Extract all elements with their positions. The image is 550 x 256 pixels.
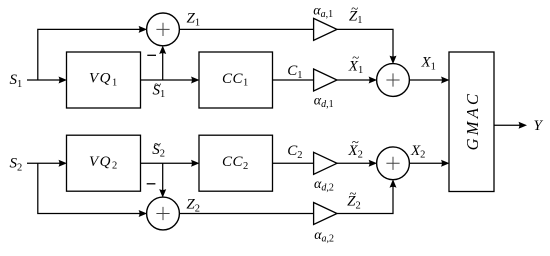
arrowhead into VQ2 (59, 160, 68, 167)
block CC1 (199, 52, 273, 108)
block VQ1 (67, 52, 141, 108)
wire Z1-tilde amp alpha_a1 down to adder A2 top (337, 29, 393, 61)
wire S2-tilde junction down into adder A4 (162, 163, 164, 194)
block GMAC (449, 52, 494, 192)
label Z1-tilde (349, 0, 363, 26)
arrowhead into adder A3 bottom (390, 179, 397, 188)
wire S1-tilde junction up into adder A1 (162, 49, 164, 81)
wire C2 from CC2 to amp alpha_d2 (273, 162, 314, 164)
arrowhead into adder A2 left (369, 77, 378, 84)
adder A2 (X1 summer) (377, 64, 410, 97)
svg-text:~: ~ (352, 134, 359, 149)
arrowhead into adder A3 left (369, 160, 378, 167)
minus sign at adder A1 (147, 54, 156, 56)
wire Y output from GMAC (494, 124, 524, 126)
svg-text:~: ~ (349, 186, 356, 201)
svg-text:GMAC: GMAC (463, 91, 482, 151)
label S2-tilde (152, 136, 165, 160)
arrowhead into CC2 (191, 160, 200, 167)
adder A3 (X2 summer) (377, 147, 410, 180)
arrowhead into adder A2 top (390, 56, 397, 65)
arrowhead into adder A1 bottom (159, 46, 166, 55)
wire X2 adder A3 to GMAC (409, 162, 446, 164)
arrowhead into GMAC X2 (441, 160, 450, 167)
amp triangle alpha_d1 (314, 69, 337, 91)
wire X1-tilde amp alpha_d1 to adder A2 (337, 79, 374, 81)
label X2-tilde (347, 134, 362, 161)
amp triangle alpha_a1 (314, 18, 337, 40)
block VQ2 (67, 135, 141, 191)
wire S1 branch up to adder A1 (38, 29, 144, 80)
adder A4 (Z2 summer) (147, 197, 180, 230)
label S1-tilde (153, 77, 166, 101)
arrowhead into CC1 (191, 77, 200, 84)
arrowhead Y output (519, 122, 528, 129)
wire C1 from CC1 to amp alpha_d1 (273, 79, 314, 81)
wire Z2-tilde amp alpha_a2 up to adder A3 bottom (337, 183, 393, 214)
arrowhead into adder A1 left (139, 26, 148, 33)
wire Z1 adder A1 to amp alpha_a1 (179, 28, 313, 30)
svg-text:~: ~ (352, 50, 359, 65)
wire S2 branch down to adder A4 (38, 163, 144, 213)
wire X2-tilde amp alpha_d2 to adder A3 (337, 162, 374, 164)
svg-text:~: ~ (154, 136, 161, 151)
svg-text:~: ~ (351, 0, 358, 15)
arrowhead into VQ1 (59, 77, 68, 84)
wire S1 input lead (27, 79, 64, 81)
label X1-tilde (348, 50, 363, 77)
wire VQ2 output to CC2 (141, 162, 197, 164)
amp triangle alpha_a2 (314, 203, 337, 225)
label Z2-tilde (347, 186, 361, 212)
adder A1 (Z1 summer) (147, 13, 180, 46)
minus sign at adder A4 (147, 183, 156, 185)
wire X1 adder A2 to GMAC (409, 79, 446, 81)
svg-text:~: ~ (154, 77, 161, 92)
arrowhead into adder A4 left (139, 210, 148, 217)
arrowhead into GMAC X1 (441, 77, 450, 84)
block CC2 (199, 135, 273, 191)
amp triangle alpha_d2 (314, 152, 337, 174)
wire Z2 adder A4 to amp alpha_a2 (179, 213, 313, 215)
wire S2 input lead (27, 162, 64, 164)
wire VQ1 output to CC1 (141, 79, 197, 81)
arrowhead into adder A4 top (159, 189, 166, 198)
